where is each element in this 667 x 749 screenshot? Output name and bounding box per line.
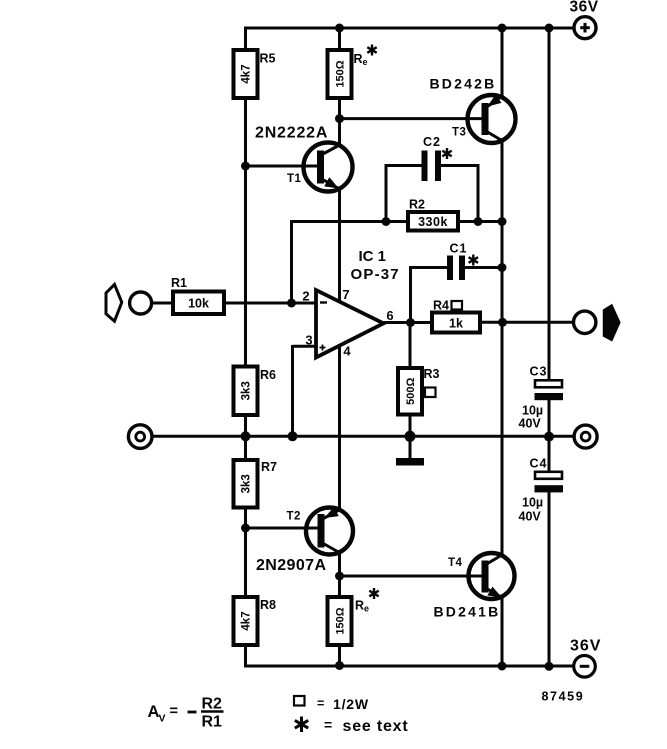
- wire input terminal to R1: [151, 302, 175, 305]
- wire left rail R8 to bottom rail: [244, 643, 247, 668]
- svg-text:R3: R3: [424, 367, 440, 381]
- resistor Re 150 ohm top: [328, 50, 352, 98]
- svg-text:=: =: [170, 704, 178, 720]
- svg-text:IC 1: IC 1: [359, 248, 387, 265]
- wire left rail R6 to R7: [244, 413, 247, 462]
- junction R2 left / C2: [382, 217, 391, 226]
- wire C1 right lead: [465, 266, 503, 269]
- svg-text:R6: R6: [260, 368, 276, 382]
- wire T4 base: [340, 575, 483, 578]
- svg-text:150Ω: 150Ω: [335, 607, 347, 634]
- svg-text:T2: T2: [287, 511, 301, 523]
- junction C1 / output rail: [498, 263, 507, 272]
- resistor R1 10k: [173, 292, 224, 315]
- terminal ground left: [128, 425, 152, 449]
- wire ground rail to C4: [548, 436, 551, 473]
- svg-text:C1: C1: [450, 242, 468, 256]
- wire op-amp pin 6 output: [382, 321, 434, 324]
- svg-text:R7: R7: [261, 460, 277, 474]
- resistor R2 330k: [408, 212, 458, 231]
- svg-text:R2: R2: [409, 198, 425, 212]
- svg-text:3k3: 3k3: [241, 474, 253, 493]
- junction T3 base node: [335, 114, 344, 123]
- svg-text:4: 4: [343, 344, 351, 359]
- wire left rail R5 to R6: [244, 96, 247, 368]
- svg-text:BD242B: BD242B: [430, 76, 497, 92]
- wire C4 to -36V rail: [548, 492, 551, 668]
- wire middle rail Re to T1 collector: [338, 96, 341, 147]
- junction top rail / T3 emitter: [498, 24, 507, 33]
- resistor R6: [234, 367, 258, 416]
- wire C2 left lead horizontal: [386, 164, 422, 167]
- junction T1 base node: [241, 162, 250, 171]
- wire R3 bottom lead: [409, 413, 412, 437]
- svg-text:BD241B: BD241B: [434, 604, 501, 620]
- wire R2 left lead: [290, 220, 410, 223]
- wire R4 to output terminal: [478, 321, 574, 324]
- terminal -36V bottom: [574, 656, 596, 678]
- svg-text:40V: 40V: [519, 510, 542, 524]
- legend half-watt square: [294, 696, 305, 706]
- wire +36V to C3: [548, 28, 551, 381]
- junction top rail / Re: [335, 24, 344, 33]
- svg-text:=: =: [317, 697, 324, 711]
- svg-text:10µ: 10µ: [522, 404, 543, 418]
- resistor R7: [234, 460, 258, 508]
- junction bottom rail / C4 rail: [545, 662, 554, 671]
- wire C2 right lead vertical: [477, 164, 480, 222]
- formula Av = -R2/R1: [148, 696, 224, 731]
- resistor Re 150 ohm bottom: [328, 597, 352, 645]
- input arrow: [106, 284, 122, 321]
- svg-text:R5: R5: [260, 52, 276, 66]
- resistor R8: [234, 597, 258, 645]
- junction inverting input node: [287, 299, 296, 308]
- svg-text:R1: R1: [171, 276, 187, 290]
- wire C2 right lead horizontal: [441, 164, 479, 167]
- asterisk C1: [469, 255, 478, 266]
- asterisk C2: [442, 148, 451, 159]
- junction R2 / output rail: [498, 217, 507, 226]
- asterisk Re top: [367, 45, 376, 56]
- transistor T1 2N2222A: [246, 143, 353, 192]
- wire T3 base: [340, 117, 483, 120]
- wire output rail T3 collector to T4 collector: [501, 141, 504, 555]
- svg-text:7: 7: [342, 287, 349, 302]
- wire T3 emitter to +36V rail: [501, 28, 504, 98]
- svg-text:R4: R4: [433, 299, 449, 313]
- junction bottom rail / T4 emitter: [498, 662, 507, 671]
- wire R2 right lead: [456, 220, 502, 223]
- svg-text:T1: T1: [287, 173, 302, 185]
- wire pin 3 down to ground: [291, 345, 294, 436]
- asterisk Re bottom: [369, 588, 378, 599]
- legend asterisk: [295, 717, 308, 733]
- wire T4 emitter to -36V rail: [501, 598, 504, 668]
- capacitor C4 electrolytic: [535, 472, 564, 493]
- junction ground / R3: [405, 431, 416, 442]
- wire ground rail: [152, 435, 574, 438]
- svg-text:T4: T4: [448, 557, 463, 569]
- svg-text:330k: 330k: [418, 215, 448, 229]
- svg-text:1k: 1k: [449, 316, 463, 330]
- svg-text:C3: C3: [530, 365, 548, 379]
- capacitor C3 electrolytic: [535, 380, 564, 400]
- half-watt square R3: [425, 388, 436, 398]
- svg-text:10k: 10k: [188, 297, 209, 311]
- junction R2 right / C2: [474, 217, 483, 226]
- svg-text:10µ: 10µ: [522, 496, 543, 510]
- transistor T3 BD242B: [468, 95, 516, 143]
- transistor T4 BD241B: [469, 553, 515, 599]
- svg-text:40V: 40V: [519, 417, 542, 431]
- svg-text:see text: see text: [343, 718, 409, 735]
- junction T4 base node: [335, 572, 344, 581]
- svg-text:1/2W: 1/2W: [333, 696, 369, 712]
- wire C1 left lead vertical: [409, 266, 412, 323]
- svg-text:Re: Re: [354, 52, 368, 67]
- svg-text:R2: R2: [202, 696, 223, 713]
- junction ground / left rail: [241, 431, 251, 441]
- svg-text:3: 3: [305, 333, 312, 348]
- resistor R4 1k: [432, 313, 480, 333]
- junction T2 base node: [241, 524, 250, 533]
- svg-text:R8: R8: [260, 598, 276, 612]
- junction ground / C3 C4: [544, 432, 554, 442]
- svg-text:4k7: 4k7: [241, 611, 253, 630]
- wire left rail top segment (to R5): [244, 27, 247, 53]
- wire C1 left lead horizontal: [411, 266, 448, 269]
- svg-text:2: 2: [302, 289, 309, 304]
- wire op-amp pin 4 to T2 emitter: [338, 344, 341, 510]
- junction ground / pin 3: [288, 431, 298, 441]
- wire C3 to ground rail: [548, 399, 551, 437]
- wire R1 to op-amp pin 2: [222, 302, 316, 305]
- wire top +36V rail: [244, 27, 574, 30]
- wire R3 top lead: [409, 323, 412, 371]
- output arrow: [604, 305, 620, 341]
- svg-text:C2: C2: [423, 135, 441, 149]
- half-watt square R4: [452, 301, 463, 310]
- wire op-amp pin 3 horizontal: [293, 345, 317, 348]
- svg-text:=: =: [324, 717, 332, 733]
- junction top rail / C3 rail: [545, 24, 554, 33]
- junction bottom rail / Re': [335, 661, 344, 670]
- op-amp U1 OP-37 triangle: [316, 290, 384, 358]
- svg-text:500Ω: 500Ω: [405, 378, 417, 405]
- svg-text:36V: 36V: [570, 638, 601, 655]
- wire left rail R7 to R8: [244, 506, 247, 600]
- svg-text:R1: R1: [202, 714, 223, 731]
- svg-text:V: V: [159, 713, 166, 725]
- terminal output: [574, 311, 596, 333]
- wire middle rail top (to Re 150): [338, 28, 341, 52]
- capacitor C2: [422, 151, 442, 182]
- wire bottom -36V rail: [244, 665, 574, 668]
- ground symbol bar: [396, 458, 424, 466]
- svg-text:150Ω: 150Ω: [335, 60, 347, 87]
- wire T2 collector down to Re' 150: [338, 551, 341, 599]
- wire Re' bottom to -36V rail: [338, 643, 341, 666]
- svg-text:Re: Re: [355, 599, 369, 614]
- resistor R3 500 ohm: [398, 368, 422, 415]
- transistor T2 2N2907A: [246, 508, 354, 555]
- resistor R5: [234, 50, 258, 98]
- terminal +36V top: [574, 17, 596, 39]
- wire T1 emitter to op-amp pin 7: [338, 188, 341, 303]
- svg-text:3k3: 3k3: [241, 381, 253, 400]
- wire ground stub below rail: [409, 436, 412, 459]
- svg-text:2N2222A: 2N2222A: [255, 124, 328, 141]
- svg-text:4k7: 4k7: [241, 64, 253, 83]
- svg-text:87459: 87459: [542, 690, 585, 704]
- capacitor C1: [447, 256, 465, 281]
- wire C2 left lead vertical: [385, 164, 388, 222]
- svg-text:OP-37: OP-37: [351, 266, 400, 283]
- svg-text:C4: C4: [530, 457, 548, 471]
- terminal input: [130, 292, 152, 314]
- svg-text:36V: 36V: [569, 0, 598, 16]
- wire inverting node up to R2: [290, 220, 293, 303]
- junction R4 / output rail: [498, 318, 507, 327]
- junction pin 6 / R3 / C1: [406, 318, 415, 327]
- svg-text:T3: T3: [452, 127, 466, 139]
- terminal ground right: [574, 425, 597, 448]
- svg-text:2N2907A: 2N2907A: [256, 557, 326, 574]
- svg-text:6: 6: [386, 308, 393, 323]
